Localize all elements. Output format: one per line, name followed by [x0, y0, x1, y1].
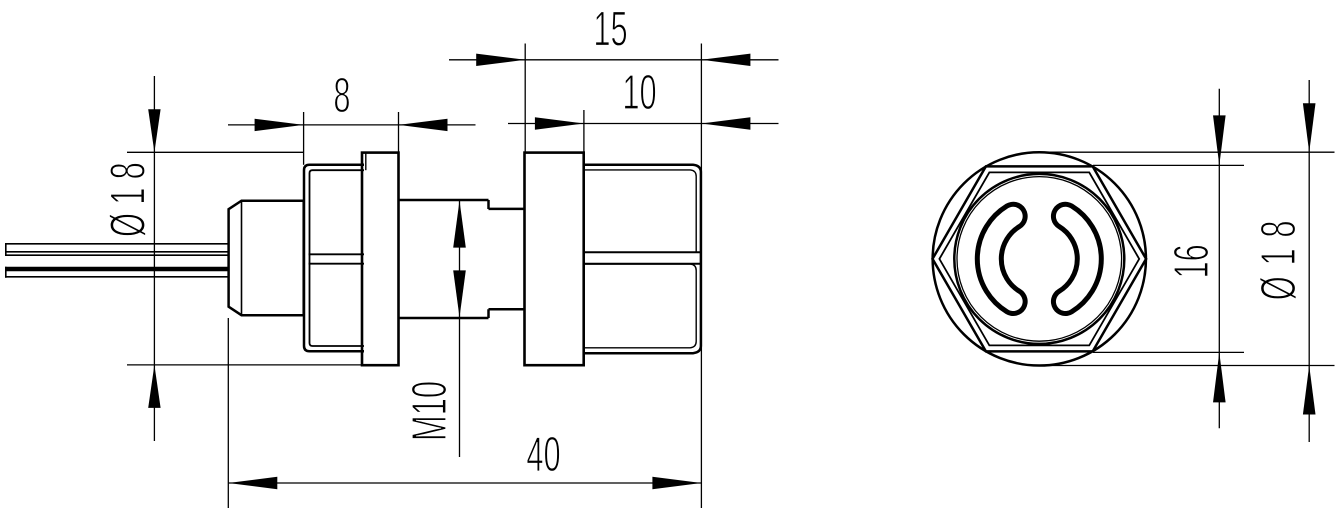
dimension 15 extension left — [524, 44, 526, 153]
hex nut inner hexagon — [939, 172, 1139, 345]
dimension 10 extension left — [583, 110, 585, 153]
dimension 40 extension left — [227, 318, 229, 508]
dimension dia18 right extension top — [1043, 151, 1335, 153]
flange edge line — [365, 154, 367, 171]
spacer section — [489, 209, 525, 309]
dimension dia18 left extension bottom — [127, 364, 362, 366]
lock nut outer — [304, 165, 364, 351]
dimension dia18 left arrow down — [148, 109, 160, 152]
dimension 16 line — [1218, 89, 1220, 429]
svg-text:8: 8 — [333, 68, 350, 123]
right curved slot — [1065, 216, 1089, 301]
dimension dia18 left arrow up — [148, 365, 160, 408]
dimension 8 extension right — [398, 112, 400, 153]
cable gland chamfer line — [241, 201, 243, 316]
dimension dia18 right arrow up — [1303, 366, 1316, 415]
dimension 40 arrow right — [652, 477, 701, 489]
svg-text:Ø18: Ø18 — [1251, 210, 1306, 300]
dimension 16 extension bottom — [1093, 351, 1244, 353]
thread outer boundary — [584, 165, 701, 354]
dimension M10 line — [459, 201, 461, 457]
dimension 8 line — [228, 124, 476, 126]
dimension dia18 right line — [1308, 80, 1310, 442]
dimension 10 line — [508, 123, 779, 125]
wire leads — [5, 243, 228, 278]
lock nut inner lines — [310, 170, 365, 346]
thread groove lines — [584, 252, 701, 263]
dimension 15 arrow right — [701, 54, 750, 66]
dimension dia18 left line — [153, 76, 155, 441]
dimension 10 arrow left — [535, 117, 584, 129]
dimension dia18 right extension bottom — [1043, 365, 1335, 367]
dimension 40 line — [228, 482, 701, 484]
hex nut bore chamfer circle — [957, 177, 1122, 342]
thread minor lower rect — [584, 264, 696, 348]
dimension 8 arrow left — [255, 119, 304, 131]
dimension 16 extension top — [1093, 164, 1244, 166]
svg-text:M10: M10 — [402, 381, 457, 441]
dimension 8 extension left — [303, 112, 305, 165]
dimension 15 arrow left — [476, 54, 525, 66]
front ring flange — [525, 153, 584, 366]
dimension 40 arrow left — [228, 477, 277, 489]
hex nut bore circle — [954, 174, 1124, 344]
svg-text:40: 40 — [526, 427, 560, 482]
svg-text:10: 10 — [622, 65, 656, 120]
thread minor upper rect — [584, 170, 696, 252]
dimension dia18 left extension top — [127, 151, 304, 153]
dimension 16 arrow down — [1213, 115, 1226, 165]
lock nut middle groove — [309, 254, 365, 263]
dimension M10 arrow up — [453, 201, 466, 248]
flange — [362, 153, 399, 366]
dimension 8 arrow right — [399, 119, 448, 131]
dimension M10 arrow down — [453, 270, 466, 317]
neck section — [399, 200, 489, 318]
svg-text:Ø18: Ø18 — [100, 154, 155, 237]
hex nut outer circle — [933, 152, 1146, 365]
wire lead thick conductor — [5, 267, 228, 272]
cable gland body — [229, 201, 304, 316]
dimension dia18 right arrow down — [1303, 103, 1316, 152]
svg-text:15: 15 — [593, 1, 627, 56]
hex nut hexagon — [933, 166, 1147, 351]
dimension 15 line — [449, 59, 779, 61]
left curved slot — [989, 216, 1013, 301]
svg-text:16: 16 — [1164, 244, 1219, 278]
dimension 10 arrow right — [701, 117, 750, 129]
dimension 15/10/40 shared extension right — [700, 44, 702, 509]
dimension 16 arrow up — [1213, 352, 1226, 402]
